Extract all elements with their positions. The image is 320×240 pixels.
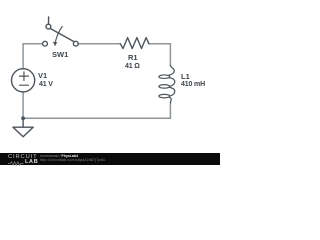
- wire V1 bottom to junction: [22, 92, 24, 119]
- label 41 V: [39, 81, 53, 88]
- voltage source V1 circle: [12, 69, 35, 92]
- inductor L1 coil: [169, 65, 175, 75]
- switch SW1 lever: [50, 28, 74, 41]
- inductor exit curve: [169, 97, 171, 103]
- logo waveform: [8, 161, 25, 166]
- label 41 ohm: [125, 63, 140, 70]
- ground triangle: [13, 127, 33, 137]
- wire bottom horizontal: [23, 117, 170, 119]
- label L1: [181, 73, 190, 81]
- switch SW1 right terminal circle: [73, 41, 78, 46]
- switch SW1 top terminal circle: [46, 24, 51, 29]
- label 410 mH: [181, 81, 205, 88]
- wire left vertical (corner down to V1 top): [22, 44, 24, 69]
- switch SW1 left terminal circle: [43, 41, 48, 46]
- url line: [40, 159, 105, 163]
- wire right vertical lower (inductor bottom to corner): [169, 103, 171, 119]
- ground stub: [22, 118, 24, 127]
- resistor R1 zigzag: [120, 38, 149, 49]
- user line: [40, 155, 78, 159]
- label R1: [128, 54, 138, 62]
- wire right vertical upper (corner to inductor top): [169, 44, 171, 66]
- label V1: [38, 72, 47, 80]
- CircuitLab logo word CIRCUIT: [8, 155, 37, 161]
- watermark bar: [0, 153, 220, 165]
- junction node dot: [21, 116, 25, 120]
- wire resistor to top-right corner: [149, 43, 171, 45]
- switch SW1 top stub: [48, 17, 50, 24]
- V1 minus sign: [20, 84, 29, 86]
- V1 plus sign: [20, 72, 29, 81]
- logo word LAB: [25, 160, 38, 166]
- wire top-left horizontal (corner to switch left terminal): [23, 43, 42, 45]
- wire switch right terminal to resistor: [78, 43, 120, 45]
- label SW1: [52, 51, 68, 59]
- switch SW1 actuation arrow: [55, 27, 62, 43]
